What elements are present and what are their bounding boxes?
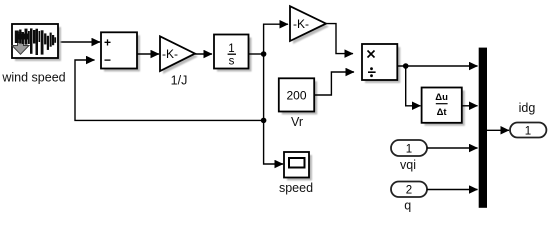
top gain -K- shadow: [293, 9, 329, 44]
svg-text:1: 1: [406, 144, 412, 156]
inport 1 vqi: [391, 140, 427, 156]
sum block shadow: [104, 35, 140, 71]
wire: product output to junction B2 and mux input 1: [397, 65, 477, 67]
wire: top gain to product input 1: [326, 24, 353, 54]
label: vqi: [400, 158, 416, 172]
mux bar: [479, 48, 487, 208]
constant 200 shadow: [282, 81, 317, 114]
svg-text:1/J: 1/J: [171, 74, 188, 88]
inport 2 q: [391, 182, 427, 198]
label: Vr: [291, 115, 303, 129]
wire: junction B down to scope: [264, 120, 283, 164]
svg-text:vqi: vqi: [400, 158, 416, 172]
integrator shadow: [217, 38, 252, 72]
svg-text:Vr: Vr: [291, 115, 303, 129]
label: wind speed: [1, 71, 65, 85]
derivative block shadow: [425, 91, 465, 126]
svg-text:1: 1: [228, 43, 234, 55]
wire: inport q to mux input 4: [427, 189, 478, 191]
wire: junction B2 down to derivative input: [406, 66, 421, 106]
wire: mux output to outport idg: [487, 129, 509, 131]
wire: wind speed to sum + input: [58, 41, 100, 43]
wire: sum output to gain 1/J: [137, 53, 159, 55]
wire: integrator output to junction A: [249, 53, 264, 55]
scope block: [284, 152, 309, 178]
wire: inport vqi to mux input 3: [427, 147, 478, 149]
svg-text:200: 200: [286, 89, 306, 103]
label: speed: [279, 181, 313, 195]
wire: derivative output to mux input 2: [462, 105, 478, 107]
wire: feedback junction B left and up to sum - input: [75, 60, 264, 120]
svg-text:2: 2: [406, 185, 412, 197]
node B2 junction dot: [403, 63, 409, 69]
svg-text:s: s: [229, 56, 235, 68]
svg-text:-K-: -K-: [293, 17, 309, 31]
gray download arrow icon: [12, 33, 29, 55]
gain 1/J shadow: [163, 39, 198, 74]
svg-text:speed: speed: [279, 181, 313, 195]
sum block: [101, 32, 137, 68]
constant 200 block: [279, 78, 314, 111]
label: 1/J: [171, 74, 188, 88]
scope block shadow: [287, 155, 312, 181]
svg-text:wind speed: wind speed: [1, 71, 65, 85]
svg-text:idg: idg: [519, 101, 536, 115]
svg-text:-K-: -K-: [162, 47, 178, 61]
product block shadow: [365, 47, 400, 83]
label: idg: [519, 101, 536, 115]
wire: junction A up to top gain: [264, 24, 288, 54]
outport 1 idg: [510, 123, 546, 138]
svg-text:Δt: Δt: [437, 107, 448, 118]
svg-text:Δu: Δu: [435, 92, 448, 103]
product (multiply/divide) block: [362, 44, 397, 80]
wind speed source block: [12, 24, 58, 58]
top gain -K- block: [290, 6, 326, 41]
derivative du/dt block: [422, 88, 462, 123]
svg-text:q: q: [404, 199, 411, 213]
svg-text:+: +: [104, 36, 111, 50]
wind speed source block shadow: [15, 27, 61, 61]
noise waveform icon bars: [15, 28, 56, 55]
wire: constant 200 to product input 2: [314, 72, 354, 95]
wire: junction A down to junction B: [263, 54, 265, 120]
svg-text:1: 1: [525, 126, 531, 138]
wire: gain 1/J to integrator: [195, 53, 212, 55]
svg-text:−: −: [104, 53, 111, 67]
label: q: [404, 199, 411, 213]
node A junction dot: [261, 51, 267, 57]
node B junction dot on feedback: [261, 118, 267, 124]
integrator 1/s block: [214, 35, 249, 69]
gain 1/J block: [160, 36, 195, 71]
